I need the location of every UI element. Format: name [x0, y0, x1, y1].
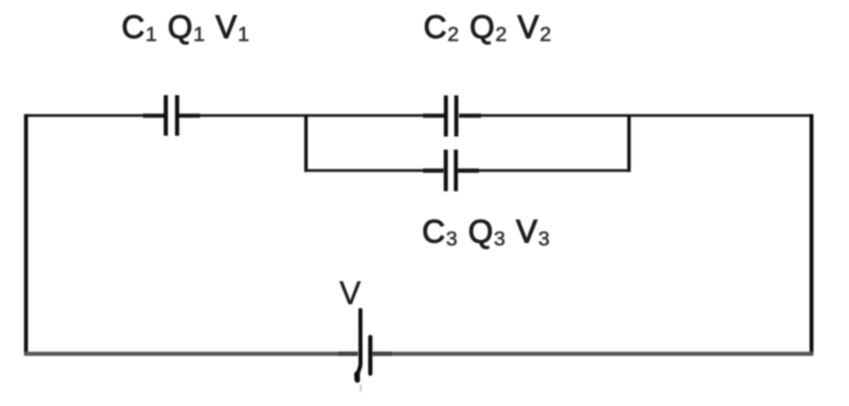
capacitor C1 left plate — [164, 95, 168, 136]
capacitor C2 left plate — [444, 95, 448, 136]
wire: C2 left lead (thicker) — [423, 114, 444, 118]
capacitor C2 right plate — [454, 95, 458, 136]
battery V short plate (right) — [368, 337, 372, 374]
wire: top, C2 to top-right corner — [481, 114, 813, 117]
wire: C1 right lead (thicker) — [179, 114, 200, 118]
wire: battery left lead (darker) — [338, 352, 358, 357]
wire: parallel branch lower, left of C3 — [306, 169, 444, 172]
battery V long plate faint ink tail — [360, 386, 362, 392]
wire: C3 left lead (thicker) — [423, 169, 444, 173]
wire: C2 right lead (thicker) — [459, 114, 481, 118]
wire: battery right lead (darker) — [373, 352, 393, 357]
svg-text:V: V — [340, 275, 362, 311]
capacitor C3 left plate — [444, 150, 448, 192]
node: left junction vertical of parallel branch — [304, 116, 307, 173]
capacitor C1 right plate — [175, 95, 179, 136]
wire: C1 left lead (thicker) — [143, 114, 164, 118]
capacitor C3 right plate — [454, 150, 458, 192]
svg-text:C3 Q3 V3: C3 Q3 V3 — [422, 214, 551, 251]
wire: C3 right lead (thicker) — [458, 169, 479, 173]
wire: right side vertical — [810, 114, 814, 355]
wire: bottom, right of battery (gray) — [373, 352, 814, 356]
wire: bottom, left of battery (gray) — [25, 352, 359, 356]
svg-text:C1 Q1 V1: C1 Q1 V1 — [122, 9, 251, 46]
node: right junction vertical of parallel branch — [627, 116, 630, 173]
wire: left side vertical — [24, 114, 28, 355]
wire: parallel branch lower, right of C3 — [479, 169, 629, 172]
wire: top, left segment to C1 — [26, 114, 164, 117]
wire: top, C1 to C2 — [200, 114, 444, 117]
svg-text:C2 Q2 V2: C2 Q2 V2 — [424, 9, 553, 46]
battery V long plate (left, hand-drawn wobble) — [358, 310, 361, 381]
battery V long plate bottom blob — [354, 374, 360, 380]
